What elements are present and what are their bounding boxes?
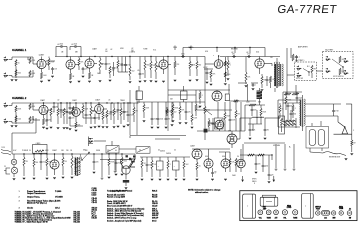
wire (33, 167, 35, 176)
ground (15, 126, 18, 127)
ground (66, 128, 69, 129)
svg-text:GA-77RET: GA-77RET (277, 4, 338, 16)
svg-text:50: 50 (42, 150, 44, 152)
wire (287, 112, 289, 121)
svg-text:REVERB: REVERB (231, 49, 238, 51)
wire (287, 108, 289, 112)
ground (245, 86, 248, 87)
wire (89, 68, 91, 72)
wire (218, 56, 220, 60)
wire (195, 90, 197, 102)
wire (11, 103, 13, 106)
ground (42, 127, 45, 128)
wire bus y90 (168, 89, 230, 91)
wire (82, 153, 89, 161)
wire (12, 56, 33, 58)
wire (308, 72, 310, 76)
wire (43, 115, 45, 118)
wire (159, 170, 161, 177)
wire (255, 166, 257, 170)
node (123, 102, 124, 103)
svg-text:.05: .05 (18, 62, 20, 64)
svg-text:.02: .02 (53, 112, 55, 114)
svg-text:REV: REV (333, 217, 336, 219)
ground (62, 177, 65, 178)
svg-text:AMPLIFIER: AMPLIFIER (298, 45, 308, 48)
wire (260, 116, 262, 124)
input jack J1 (4, 57, 9, 62)
ground (125, 188, 128, 189)
wire x247 (247, 84, 249, 101)
wire (108, 166, 110, 175)
ground (121, 174, 124, 175)
wire (114, 160, 116, 171)
ground (210, 84, 213, 85)
wire (115, 154, 117, 161)
wire (13, 154, 15, 159)
wire (102, 109, 104, 112)
filter choke L1 (252, 117, 264, 118)
wire (63, 116, 65, 124)
wire (204, 68, 213, 70)
tube V12 6V6 (221, 159, 230, 168)
wire (259, 99, 261, 105)
component (123, 180, 129, 183)
node (60, 102, 61, 103)
wire (296, 92, 298, 96)
wire (166, 107, 168, 109)
wire (55, 47, 57, 57)
ground (13, 179, 16, 180)
svg-text:1 2 3: 1 2 3 (324, 218, 327, 220)
wire (171, 102, 173, 108)
box (173, 161, 180, 170)
wire (129, 76, 131, 80)
wire (183, 157, 185, 160)
svg-text:.05: .05 (282, 109, 284, 111)
ground (224, 179, 227, 180)
box (33, 145, 48, 154)
wire (196, 170, 198, 177)
input jack (326, 68, 331, 73)
ground (123, 126, 126, 127)
ground (108, 177, 111, 178)
svg-text:3300: 3300 (60, 43, 64, 45)
ground (150, 81, 153, 82)
wire (212, 126, 214, 131)
ground (127, 125, 130, 126)
svg-text:40/450: 40/450 (160, 151, 165, 153)
wire (99, 70, 101, 74)
input jack (344, 70, 349, 75)
wire (179, 114, 181, 120)
relay box 1 (106, 146, 119, 154)
ground (179, 123, 182, 124)
panel transformer2 inner (309, 194, 311, 219)
ground (63, 128, 66, 129)
wire (208, 118, 210, 120)
wire stub (190, 46, 192, 51)
ground (11, 80, 14, 81)
node (23, 153, 24, 154)
wire (275, 144, 277, 168)
svg-text:3300: 3300 (124, 161, 128, 163)
node (127, 102, 128, 103)
ground (143, 121, 146, 122)
wire (234, 48, 236, 54)
wire (224, 120, 226, 131)
node (85, 102, 86, 103)
wire y143 (244, 142, 285, 144)
wire (54, 169, 56, 175)
input jack (326, 56, 331, 61)
svg-text:1500: 1500 (299, 98, 303, 100)
resistor (35, 150, 44, 152)
svg-text:5Y3: 5Y3 (228, 131, 231, 133)
wire top bus y47 (183, 47, 265, 49)
wire main bus channel 2 (33, 102, 138, 104)
wire (276, 58, 278, 62)
resistor (248, 154, 255, 156)
svg-text:- V7 - GZ34 Rect Spare 60 W: - V7 - GZ34 Rect Spare 60 W (21, 221, 48, 224)
wire (71, 168, 73, 175)
wire (62, 154, 64, 157)
ground (46, 128, 49, 129)
wire (113, 103, 115, 108)
svg-text:TONE: TONE (293, 217, 297, 219)
wire (262, 155, 264, 164)
wire (171, 116, 173, 122)
resistor (234, 100, 239, 102)
wire (225, 168, 227, 172)
wire (151, 157, 153, 160)
component (132, 161, 135, 163)
wire (9, 105, 12, 107)
wire (102, 120, 104, 124)
wire (264, 118, 266, 128)
svg-text:.1: .1 (170, 164, 171, 166)
ground arrow (114, 171, 116, 173)
arrow above panel (242, 176, 244, 182)
wire (139, 57, 141, 73)
wire (295, 118, 297, 128)
diagonal wire (203, 108, 212, 115)
ground (69, 129, 72, 130)
transformer (75, 157, 80, 176)
ground (162, 81, 165, 82)
wire (66, 47, 68, 57)
wire (123, 114, 125, 120)
wire (13, 174, 15, 177)
transformer (278, 64, 283, 86)
node (308, 71, 309, 72)
tube V7 tremolo osc (95, 105, 104, 114)
wire (46, 154, 48, 158)
wire stub (174, 46, 176, 51)
svg-text:.002: .002 (174, 112, 177, 114)
wire (227, 70, 229, 76)
wire (93, 164, 95, 170)
input jack J3 (4, 103, 9, 108)
wire (88, 153, 90, 155)
svg-text:KN-20: KN-20 (92, 218, 97, 220)
ground (249, 138, 252, 139)
wire (85, 103, 87, 113)
wire (80, 111, 83, 113)
svg-text:500K: 500K (232, 120, 236, 122)
wire y105 (245, 104, 265, 106)
wire (206, 75, 208, 80)
svg-text:.05: .05 (199, 166, 201, 168)
wire (166, 114, 168, 117)
arrow above panel 2 (273, 176, 275, 182)
wire (109, 74, 111, 78)
box (225, 94, 229, 101)
svg-text:470K: 470K (215, 124, 219, 126)
svg-text:.1: .1 (298, 57, 299, 59)
wire trem link (83, 117, 95, 119)
knob TONE 1 (266, 210, 271, 215)
wire (271, 155, 273, 160)
wire y133 (12, 132, 36, 134)
wire (279, 103, 281, 105)
wire (205, 63, 214, 65)
svg-text:.02: .02 (57, 100, 59, 102)
box tremolo roach (215, 118, 224, 129)
wire (333, 113, 335, 116)
chassis panel outline (240, 191, 357, 221)
svg-text:RS-238: RS-238 (74, 222, 80, 224)
wire (104, 108, 108, 110)
node (150, 56, 151, 57)
tube V11 6V6 (204, 159, 213, 168)
wire (210, 78, 212, 82)
rectifier tube 5Y3 (227, 134, 237, 144)
svg-text:Output Trans.: Output Trans. (27, 196, 40, 199)
ground (53, 178, 56, 179)
svg-text:10K: 10K (258, 164, 261, 166)
wire (287, 74, 295, 76)
wire (165, 102, 167, 117)
wire (99, 57, 101, 59)
wire (93, 154, 95, 160)
wire squiggle (323, 152, 346, 156)
wire (185, 114, 187, 120)
svg-text:12AX7: 12AX7 (92, 48, 97, 51)
node (167, 56, 168, 57)
resistor R46 (283, 120, 295, 122)
wire (163, 69, 165, 74)
wire y110 (196, 109, 232, 111)
panel transformer inner (252, 194, 254, 218)
wire (296, 100, 298, 103)
wire (98, 103, 100, 105)
svg-text:INST: INST (263, 207, 267, 209)
resistor R47 (283, 123, 295, 125)
wire (204, 133, 206, 141)
wire (172, 112, 174, 118)
wire (54, 154, 56, 160)
svg-text:.02: .02 (57, 44, 60, 46)
svg-text:SW-DP: SW-DP (152, 217, 159, 219)
svg-text:56K: 56K (108, 64, 111, 66)
ground (196, 179, 199, 180)
ground (155, 81, 158, 82)
wire (212, 175, 214, 177)
wire (172, 102, 174, 104)
wire (293, 144, 295, 168)
ground arrow (293, 169, 295, 171)
wire (310, 152, 323, 153)
wire (15, 112, 17, 124)
wire (133, 103, 135, 107)
tube V5 reverb driver (255, 59, 264, 68)
ground (171, 125, 174, 126)
wire (113, 70, 115, 76)
wire (138, 100, 140, 104)
wire (75, 103, 77, 108)
ground (115, 174, 118, 175)
ground (102, 127, 105, 128)
svg-text:GA-77RET: GA-77RET (325, 49, 333, 52)
wire (94, 120, 96, 124)
wire (141, 168, 143, 177)
svg-text:22K: 22K (115, 68, 118, 70)
tube V10 phase inverter (192, 149, 202, 159)
wire (105, 57, 107, 63)
wire (290, 48, 292, 58)
svg-text:.002: .002 (186, 164, 189, 166)
wire (13, 165, 15, 168)
svg-text:R96-5: R96-5 (152, 191, 157, 193)
svg-text:CHANNEL 1: CHANNEL 1 (12, 49, 27, 52)
knob FREQ (331, 211, 335, 215)
reverb unit box (306, 127, 329, 149)
wire (85, 117, 87, 124)
wire (208, 122, 215, 124)
wire (302, 95, 304, 99)
wire (94, 63, 97, 65)
wire (39, 152, 41, 155)
wire (53, 103, 55, 105)
wire (259, 68, 261, 74)
wire y157 (140, 156, 190, 158)
ground (157, 127, 160, 128)
wire (110, 114, 112, 120)
transformer (274, 62, 279, 88)
node (216, 47, 217, 48)
wire (32, 116, 34, 123)
wire y152 (219, 151, 230, 153)
svg-text:POWER: POWER (22, 150, 29, 152)
svg-text:6V6: 6V6 (222, 156, 225, 158)
wire riser (182, 48, 184, 57)
transformer (300, 99, 305, 127)
svg-text:CE-20: CE-20 (152, 205, 157, 207)
component (129, 158, 131, 160)
wire (75, 64, 79, 66)
wire (151, 102, 153, 117)
wire (342, 67, 344, 73)
wire (279, 113, 281, 118)
node speaker (344, 126, 345, 127)
tube V2B 12AX7 (159, 60, 168, 69)
svg-text:200: 200 (105, 51, 108, 53)
wire (231, 144, 233, 148)
wire (240, 168, 242, 172)
wire (71, 154, 73, 156)
ground (172, 121, 175, 122)
fuse lamp 2 (11, 167, 17, 173)
node (111, 102, 112, 103)
wire (32, 57, 34, 64)
wire (266, 76, 268, 78)
wire (287, 103, 289, 104)
wire (133, 115, 135, 122)
wire (111, 141, 113, 146)
node (88, 152, 89, 153)
wire drop from ch2 (35, 118, 37, 133)
ground (106, 127, 109, 128)
svg-text:6C4: 6C4 (205, 51, 208, 53)
svg-text:+: + (271, 175, 272, 177)
tube V6B 12AX7 (72, 108, 81, 117)
resistor (258, 154, 265, 156)
wire y149 (192, 148, 230, 150)
wire (195, 102, 197, 104)
box2 diagonal (137, 148, 149, 153)
svg-text:3300: 3300 (18, 72, 22, 74)
svg-text:20/450: 20/450 (166, 153, 171, 155)
wire (260, 105, 262, 108)
ground (264, 138, 267, 139)
ground (185, 123, 188, 124)
wire (117, 103, 119, 108)
svg-text:without notice.: without notice. (195, 191, 209, 194)
node (117, 102, 118, 103)
svg-text:SO-5: SO-5 (152, 220, 156, 222)
wire (127, 103, 129, 113)
wire (57, 103, 59, 108)
input jack (89, 138, 94, 143)
wire (157, 121, 159, 125)
wire (125, 183, 127, 186)
wire (212, 118, 214, 122)
wire (302, 127, 304, 131)
svg-text:Switch - DPST w/Tone Pot 1 meg: Switch - DPST w/Tone Pot 1 meg (107, 216, 137, 219)
wire (296, 59, 298, 62)
wire trem gnd link (70, 125, 83, 127)
wire (274, 88, 276, 92)
svg-text:.05: .05 (108, 100, 110, 102)
wire (155, 57, 157, 62)
wire main bus channel 1 (55, 56, 205, 58)
wire (228, 84, 230, 94)
svg-text:6V6: 6V6 (205, 156, 208, 158)
knob SPEED (339, 211, 343, 215)
svg-text:250: 250 (66, 150, 69, 152)
wire (279, 117, 281, 119)
jack bracket (89, 137, 94, 147)
wire drop (286, 62, 288, 95)
ground (51, 76, 54, 77)
ground (189, 80, 192, 81)
wire (98, 114, 100, 121)
tube V1B 12AX7 (66, 60, 75, 69)
resistor (284, 124, 296, 126)
wire (64, 46, 68, 48)
knob VOLUME 2 (274, 210, 279, 215)
